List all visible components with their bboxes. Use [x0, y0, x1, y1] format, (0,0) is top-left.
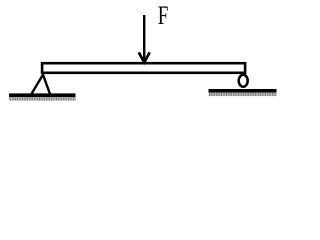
- ground bar left: [9, 93, 76, 97]
- beam (rectangle body): [42, 63, 245, 73]
- ground hatch left: [9, 97, 76, 101]
- force arrow head (open chevron): [139, 52, 150, 62]
- pin support (triangle): [31, 75, 50, 95]
- svg-text:F: F: [158, 1, 169, 30]
- roller support (circle): [239, 75, 248, 87]
- force arrow shaft: [143, 15, 145, 62]
- ground bar right: [209, 89, 277, 93]
- ground hatch right: [209, 93, 277, 97]
